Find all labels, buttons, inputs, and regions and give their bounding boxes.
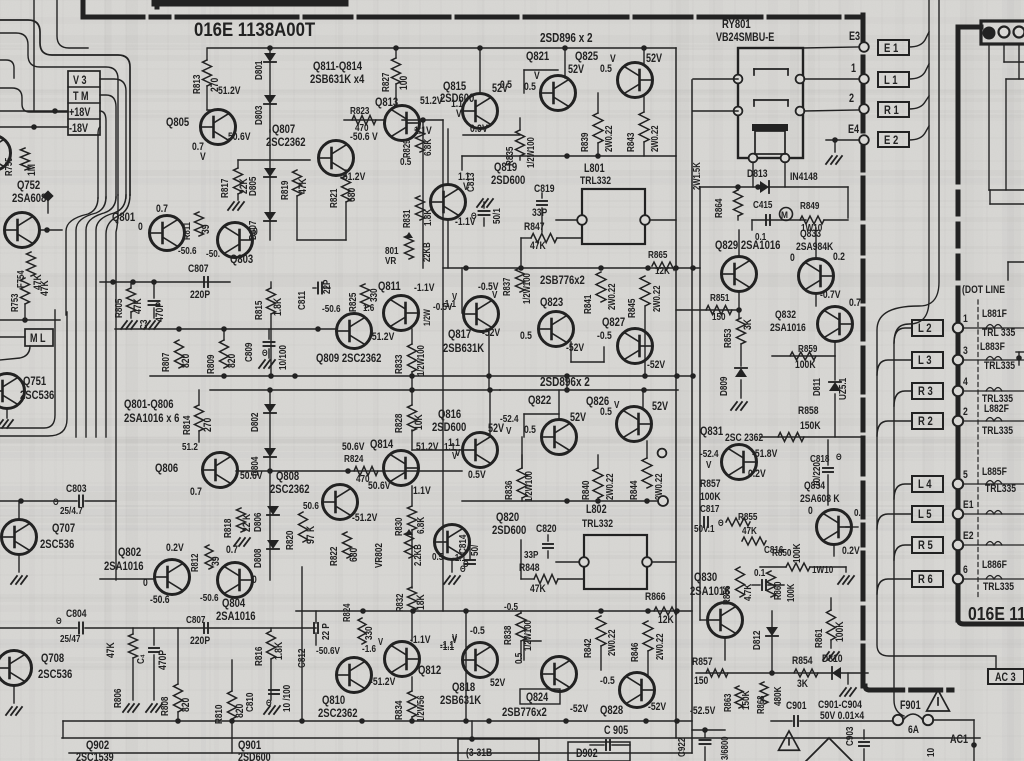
svg-text:C803: C803: [66, 483, 87, 495]
svg-text:R828: R828: [393, 414, 404, 433]
svg-text:R818: R818: [222, 519, 233, 538]
svg-text:0.5: 0.5: [400, 156, 411, 167]
svg-text:-52V: -52V: [482, 327, 501, 339]
svg-text:TRL332: TRL332: [580, 175, 611, 187]
svg-text:V: V: [452, 632, 457, 643]
svg-text:-18V: -18V: [69, 123, 88, 135]
svg-text:470P: 470P: [157, 650, 169, 670]
svg-text:M L: M L: [30, 333, 46, 345]
svg-text:0.2: 0.2: [833, 251, 845, 263]
svg-text:C922: C922: [676, 738, 687, 757]
svg-text:Q809 2SC2362: Q809 2SC2362: [316, 352, 381, 365]
svg-text:AC1: AC1: [950, 734, 968, 746]
svg-text:C813: C813: [465, 173, 476, 192]
svg-text:6.8K: 6.8K: [422, 139, 433, 156]
svg-text:E2: E2: [963, 530, 974, 542]
svg-text:D806: D806: [252, 513, 263, 532]
svg-text:D813: D813: [747, 168, 768, 180]
svg-text:50.6V: 50.6V: [368, 480, 391, 492]
svg-text:R827: R827: [380, 73, 391, 92]
svg-text:22K: 22K: [238, 177, 250, 194]
svg-text:L 2: L 2: [918, 322, 932, 335]
svg-text:TRL335: TRL335: [985, 483, 1016, 495]
svg-text:50.6V: 50.6V: [228, 131, 251, 143]
svg-text:-52.4: -52.4: [700, 448, 719, 459]
svg-text:820: 820: [180, 697, 192, 712]
svg-text:L802: L802: [586, 504, 607, 516]
svg-text:330: 330: [363, 626, 374, 640]
svg-text:100K: 100K: [785, 583, 796, 602]
svg-text:1M: 1M: [26, 164, 38, 176]
svg-text:D804: D804: [249, 456, 260, 476]
svg-text:(3-31B: (3-31B: [466, 747, 492, 759]
svg-text:T M: T M: [73, 91, 89, 103]
svg-text:R841: R841: [582, 295, 593, 314]
svg-text:R824: R824: [344, 453, 364, 464]
svg-text:Q813: Q813: [375, 96, 398, 109]
svg-text:-51.2V: -51.2V: [369, 331, 395, 343]
svg-text:2SC 2362: 2SC 2362: [725, 432, 764, 444]
svg-text:1: 1: [851, 63, 856, 75]
svg-text:150K: 150K: [740, 690, 751, 710]
svg-text:51.2: 51.2: [182, 441, 198, 452]
svg-text:2SA608 K: 2SA608 K: [800, 493, 840, 505]
svg-text:D811: D811: [811, 378, 822, 396]
svg-text:2SD600: 2SD600: [432, 421, 466, 434]
svg-text:1W10: 1W10: [812, 564, 833, 575]
svg-text:100K: 100K: [700, 491, 721, 503]
svg-text:TRL335: TRL335: [982, 393, 1013, 405]
svg-text:0.6: 0.6: [854, 507, 865, 518]
svg-text:R859: R859: [798, 343, 817, 354]
svg-text:Q818: Q818: [452, 681, 475, 694]
svg-text:-51.8V: -51.8V: [752, 448, 778, 460]
svg-text:Q820: Q820: [496, 511, 519, 524]
svg-text:2SA1016 x 6: 2SA1016 x 6: [124, 412, 179, 425]
svg-text:Q802: Q802: [118, 546, 141, 559]
svg-text:4.7K: 4.7K: [742, 584, 753, 601]
svg-text:52V: 52V: [490, 677, 506, 689]
svg-text:R813: R813: [191, 75, 202, 94]
svg-text:Q707: Q707: [52, 522, 75, 535]
svg-text:Q830: Q830: [694, 571, 717, 584]
svg-text:R815: R815: [253, 301, 264, 320]
svg-text:820: 820: [234, 703, 246, 718]
svg-text:50V.1: 50V.1: [694, 523, 715, 534]
svg-text:47K: 47K: [39, 279, 51, 296]
svg-text:2SD896x 2: 2SD896x 2: [540, 376, 590, 389]
svg-text:E4: E4: [848, 124, 859, 136]
svg-text:UZ5.1: UZ5.1: [837, 378, 848, 400]
svg-text:0: 0: [252, 574, 257, 586]
svg-text:-51.2V: -51.2V: [370, 676, 396, 688]
svg-text:2SC2362: 2SC2362: [318, 707, 358, 720]
svg-text:R822: R822: [328, 547, 339, 566]
svg-text:-50.: -50.: [206, 248, 220, 259]
svg-text:47K: 47K: [530, 583, 547, 595]
svg-text:2SC1539: 2SC1539: [76, 752, 114, 761]
svg-text:V: V: [534, 70, 540, 82]
svg-text:M: M: [781, 210, 788, 221]
svg-text:10K: 10K: [413, 413, 425, 430]
svg-text:Θ: Θ: [836, 451, 842, 462]
svg-text:0.1: 0.1: [754, 567, 765, 578]
svg-text:1.8K: 1.8K: [272, 297, 284, 316]
svg-text:97 K: 97 K: [305, 525, 317, 544]
svg-text:C820: C820: [536, 523, 557, 535]
svg-text:R834: R834: [393, 700, 404, 720]
svg-text:5: 5: [963, 469, 968, 481]
svg-text:0.2V: 0.2V: [842, 545, 860, 557]
svg-text:3K: 3K: [742, 318, 754, 330]
svg-text:R833: R833: [393, 355, 404, 374]
svg-text:-50.6V: -50.6V: [316, 645, 341, 656]
svg-text:E 1: E 1: [884, 42, 898, 55]
svg-text:39: 39: [200, 224, 212, 234]
svg-text:52V: 52V: [652, 401, 668, 413]
svg-text:Q814: Q814: [370, 438, 393, 451]
svg-text:-0.5: -0.5: [504, 601, 518, 612]
svg-text:C903: C903: [844, 727, 855, 746]
svg-text:0.7: 0.7: [190, 486, 202, 498]
svg-text:(DOT LINE: (DOT LINE: [962, 284, 1005, 296]
svg-text:-50.6: -50.6: [322, 303, 341, 314]
svg-text:52V: 52V: [570, 412, 586, 424]
svg-text:V: V: [455, 447, 461, 458]
svg-text:0.5: 0.5: [500, 79, 512, 91]
svg-text:D801: D801: [253, 61, 264, 80]
svg-text:39: 39: [210, 556, 222, 566]
svg-text:47K: 47K: [742, 525, 757, 536]
svg-text:2SD600: 2SD600: [491, 174, 525, 187]
svg-text:R865: R865: [648, 249, 667, 260]
svg-text:270: 270: [202, 417, 214, 432]
svg-text:1/2W100: 1/2W100: [415, 345, 426, 376]
svg-text:100K: 100K: [834, 621, 846, 642]
svg-text:Q810: Q810: [322, 694, 345, 707]
svg-text:V: V: [378, 636, 383, 647]
svg-text:R 5: R 5: [918, 539, 933, 552]
svg-text:D812: D812: [751, 631, 762, 650]
svg-text:R 6: R 6: [918, 573, 933, 586]
svg-text:R853: R853: [722, 329, 733, 348]
svg-text:150K: 150K: [800, 420, 821, 432]
svg-text:2SB776x2: 2SB776x2: [502, 706, 547, 719]
svg-text:L881F: L881F: [982, 308, 1007, 320]
svg-text:2.2KB: 2.2KB: [412, 544, 423, 566]
svg-text:R838: R838: [502, 626, 513, 645]
svg-text:-52V: -52V: [647, 359, 666, 371]
svg-text:2SB776x2: 2SB776x2: [540, 274, 585, 287]
svg-text:50/: 50/: [469, 544, 480, 556]
svg-text:Q808: Q808: [276, 470, 299, 483]
svg-text:R850: R850: [772, 547, 791, 558]
svg-text:3/6800: 3/6800: [719, 736, 730, 760]
svg-text:Q811-Q814: Q811-Q814: [313, 60, 362, 73]
svg-text:Q833: Q833: [800, 228, 821, 240]
svg-text:R857: R857: [700, 478, 721, 490]
svg-text:C804: C804: [66, 608, 87, 620]
svg-text:Q806: Q806: [155, 462, 178, 475]
svg-text:C807: C807: [188, 263, 209, 275]
svg-text:100K: 100K: [791, 543, 802, 563]
svg-text:22 K: 22 K: [241, 513, 253, 532]
svg-text:2SB631K: 2SB631K: [440, 694, 481, 707]
svg-text:10 /100: 10 /100: [281, 685, 292, 712]
svg-text:-1.1V: -1.1V: [410, 634, 431, 646]
svg-text:1/2W100: 1/2W100: [521, 273, 532, 304]
svg-text:25/4.7: 25/4.7: [60, 505, 83, 516]
svg-text:R830: R830: [393, 518, 404, 536]
svg-text:TRL332: TRL332: [582, 518, 613, 530]
svg-text:R858: R858: [798, 405, 819, 417]
svg-text:50.6: 50.6: [303, 500, 319, 511]
svg-text:D809: D809: [718, 377, 729, 396]
svg-text:L 5: L 5: [918, 508, 932, 521]
svg-text:47K: 47K: [105, 641, 117, 658]
svg-text:2SB631K x4: 2SB631K x4: [310, 73, 364, 86]
svg-text:VR: VR: [385, 255, 397, 266]
svg-text:-51.2V: -51.2V: [352, 512, 378, 524]
svg-text:R856: R856: [721, 586, 732, 605]
svg-text:Q801-Q806: Q801-Q806: [124, 398, 174, 411]
svg-text:D810: D810: [822, 653, 843, 665]
svg-text:R814: R814: [181, 415, 192, 435]
svg-text:TRL 335: TRL 335: [982, 327, 1016, 339]
svg-text:R821: R821: [328, 189, 339, 208]
svg-text:R824: R824: [341, 604, 352, 622]
svg-text:33P: 33P: [524, 549, 538, 560]
svg-text:-50.6: -50.6: [178, 245, 197, 256]
svg-text:C 905: C 905: [604, 725, 628, 737]
svg-text:C819: C819: [534, 183, 555, 195]
svg-text:33P: 33P: [532, 207, 548, 219]
svg-text:-52V: -52V: [566, 342, 585, 354]
svg-text:VR802: VR802: [373, 543, 384, 568]
svg-text:2W0.22: 2W0.22: [606, 629, 617, 656]
svg-text:Q801: Q801: [112, 211, 135, 224]
svg-text:1.8K: 1.8K: [422, 209, 433, 226]
svg-text:D902: D902: [576, 748, 598, 760]
svg-text:R807: R807: [160, 353, 171, 372]
svg-text:25/47: 25/47: [60, 633, 80, 644]
svg-text:2SC536: 2SC536: [20, 389, 54, 402]
svg-text:-52V: -52V: [648, 701, 667, 713]
svg-text:V: V: [614, 399, 620, 410]
svg-text:1.8K: 1.8K: [273, 641, 285, 660]
svg-text:R836: R836: [503, 481, 514, 500]
svg-text:016E 1138A00T: 016E 1138A00T: [194, 18, 315, 41]
svg-text:6A: 6A: [908, 724, 919, 736]
svg-text:Q751: Q751: [23, 375, 46, 388]
svg-text:3: 3: [963, 345, 968, 357]
svg-text:R811: R811: [181, 222, 192, 240]
svg-text:1/2W: 1/2W: [421, 309, 432, 326]
svg-text:52V: 52V: [488, 423, 504, 435]
svg-text:R864: R864: [713, 198, 724, 218]
svg-text:R860: R860: [772, 582, 783, 600]
svg-text:C901: C901: [786, 700, 807, 712]
svg-text:Q832: Q832: [775, 309, 796, 321]
svg-text:6: 6: [963, 564, 968, 576]
svg-text:51.2V: 51.2V: [416, 441, 439, 453]
svg-text:150: 150: [694, 675, 709, 687]
svg-text:52V: 52V: [568, 64, 584, 76]
svg-text:2SA1016: 2SA1016: [770, 322, 806, 334]
svg-text:47K: 47K: [297, 177, 309, 194]
svg-text:-52V: -52V: [570, 703, 589, 715]
svg-text:R831: R831: [401, 210, 412, 228]
svg-text:AC 3: AC 3: [995, 672, 1016, 684]
svg-text:V: V: [452, 291, 457, 302]
svg-text:Θ: Θ: [471, 210, 477, 221]
svg-text:VB24SMBU-E: VB24SMBU-E: [716, 32, 774, 44]
svg-text:2SD600: 2SD600: [238, 752, 271, 761]
svg-text:F901: F901: [900, 700, 921, 712]
svg-text:Q807: Q807: [272, 123, 295, 136]
svg-text:22KB: 22KB: [421, 242, 432, 262]
svg-text:0.5: 0.5: [524, 81, 536, 93]
svg-text:R861: R861: [813, 629, 824, 648]
svg-text:2W0.22: 2W0.22: [649, 125, 660, 152]
svg-text:2: 2: [849, 93, 854, 105]
svg-text:0.5: 0.5: [513, 653, 524, 664]
svg-text:Q811: Q811: [378, 280, 401, 293]
svg-text:F754: F754: [15, 270, 26, 288]
svg-text:Q901: Q901: [238, 739, 261, 752]
svg-text:2SC536: 2SC536: [38, 668, 72, 681]
svg-text:R817: R817: [219, 179, 230, 198]
svg-text:Q804: Q804: [222, 597, 245, 610]
svg-text:2SA608: 2SA608: [12, 192, 46, 205]
svg-text:150: 150: [712, 311, 726, 322]
svg-text:Q821: Q821: [526, 50, 549, 63]
svg-text:0: 0: [253, 226, 258, 238]
svg-text:50.6V: 50.6V: [342, 441, 365, 453]
svg-text:Q812: Q812: [418, 664, 441, 677]
svg-text:1.1V: 1.1V: [413, 485, 431, 497]
svg-text:47K: 47K: [132, 297, 144, 314]
svg-text:+18V: +18V: [69, 107, 90, 119]
svg-text:V: V: [610, 53, 616, 65]
svg-text:Θ: Θ: [262, 347, 268, 358]
svg-text:R820: R820: [284, 531, 295, 550]
svg-text:100K: 100K: [795, 359, 816, 371]
svg-text:0.5V: 0.5V: [468, 469, 486, 481]
svg-text:2SC2362: 2SC2362: [270, 483, 310, 496]
svg-text:R839: R839: [579, 133, 590, 152]
svg-text:10/100: 10/100: [277, 345, 288, 370]
svg-text:-1.1V: -1.1V: [414, 282, 435, 294]
svg-text:-0.5: -0.5: [600, 675, 615, 687]
svg-text:R847: R847: [524, 221, 545, 233]
svg-text:C809: C809: [243, 343, 254, 362]
svg-text:-0.5: -0.5: [470, 625, 485, 637]
svg-text:2SA1016: 2SA1016: [104, 560, 144, 573]
svg-text:Q708: Q708: [41, 652, 64, 665]
svg-text:Θ: Θ: [463, 558, 469, 569]
svg-text:R846: R846: [629, 643, 640, 662]
svg-text:Q834: Q834: [804, 480, 825, 492]
svg-text:R843: R843: [625, 133, 636, 152]
svg-text:12K: 12K: [658, 614, 675, 626]
svg-text:E1: E1: [963, 499, 974, 511]
svg-text:L801: L801: [584, 163, 605, 175]
svg-text:0: 0: [808, 505, 813, 517]
svg-text:R832: R832: [394, 594, 405, 612]
svg-text:Q805: Q805: [166, 116, 189, 129]
svg-text:801: 801: [385, 245, 399, 256]
svg-text:L 3: L 3: [918, 354, 932, 367]
svg-text:50V 0.01×4: 50V 0.01×4: [820, 710, 865, 722]
svg-text:Q825: Q825: [575, 50, 598, 63]
svg-text:C811: C811: [296, 291, 307, 310]
svg-text:6.8K: 6.8K: [415, 517, 426, 534]
svg-text:-52.4: -52.4: [500, 413, 519, 424]
svg-text:-52.5V: -52.5V: [690, 705, 716, 717]
svg-text:R825: R825: [347, 293, 358, 312]
svg-text:C415: C415: [753, 199, 772, 210]
svg-text:0.5: 0.5: [432, 551, 443, 562]
svg-text:V: V: [706, 459, 712, 470]
svg-text:TRL335: TRL335: [982, 425, 1013, 437]
svg-text:V: V: [456, 108, 462, 120]
svg-text:50/1: 50/1: [491, 208, 502, 224]
svg-text:470P: 470P: [154, 302, 166, 322]
svg-text:220P: 220P: [190, 635, 210, 647]
svg-text:0.7: 0.7: [226, 544, 238, 556]
svg-text:-1.6: -1.6: [362, 643, 376, 654]
svg-text:R845: R845: [626, 299, 637, 318]
svg-text:0.2V: 0.2V: [166, 542, 184, 554]
svg-text:2W1.5K: 2W1.5K: [691, 162, 702, 190]
svg-text:D802: D802: [249, 413, 260, 432]
svg-text:Q752: Q752: [17, 179, 40, 192]
svg-text:1: 1: [963, 313, 968, 325]
svg-text:0.7: 0.7: [156, 203, 168, 215]
svg-text:Θ: Θ: [718, 517, 724, 528]
svg-text:L885F: L885F: [982, 466, 1007, 478]
svg-text:R823: R823: [350, 105, 369, 116]
svg-text:2W0.22: 2W0.22: [603, 125, 614, 152]
svg-text:1/2W56: 1/2W56: [415, 695, 426, 722]
svg-text:R755: R755: [3, 158, 14, 176]
svg-text:820: 820: [226, 353, 238, 368]
svg-text:1/2W100: 1/2W100: [523, 471, 534, 502]
svg-text:47K: 47K: [530, 240, 547, 252]
svg-text:R 3: R 3: [918, 385, 933, 398]
svg-text:R808: R808: [159, 697, 170, 716]
svg-text:Θ: Θ: [56, 615, 62, 626]
svg-text:R805: R805: [113, 299, 124, 318]
svg-text:V: V: [506, 425, 512, 436]
svg-text:E3: E3: [849, 31, 860, 43]
svg-text:-0.7V: -0.7V: [820, 289, 841, 301]
svg-text:E 2: E 2: [884, 134, 898, 147]
svg-text:2SD896 x 2: 2SD896 x 2: [540, 32, 593, 45]
svg-text:2: 2: [963, 406, 968, 418]
svg-text:Q902: Q902: [86, 739, 109, 752]
svg-text:Q816: Q816: [438, 408, 461, 421]
svg-text:0: 0: [790, 252, 795, 264]
svg-text:0.5: 0.5: [524, 424, 536, 436]
svg-text:0: 0: [138, 221, 143, 233]
svg-text:-0.5: -0.5: [597, 330, 612, 342]
svg-text:2SA984K: 2SA984K: [796, 241, 834, 253]
svg-text:L883F: L883F: [980, 341, 1005, 353]
svg-text:V: V: [200, 151, 206, 163]
svg-text:Q822: Q822: [528, 394, 551, 407]
